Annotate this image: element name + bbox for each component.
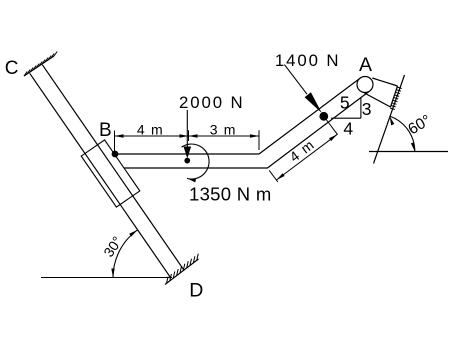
svg-text:1350 N m: 1350 N m [189, 184, 272, 205]
svg-text:4: 4 [343, 119, 353, 139]
svg-text:A: A [359, 54, 372, 76]
svg-text:B: B [99, 120, 112, 141]
svg-text:4 m: 4 m [137, 122, 164, 138]
svg-text:D: D [189, 280, 203, 302]
svg-text:5: 5 [340, 93, 350, 113]
svg-text:1400 N: 1400 N [275, 51, 341, 70]
svg-text:3 m: 3 m [210, 122, 237, 138]
svg-text:2000 N: 2000 N [179, 93, 245, 112]
svg-text:C: C [5, 58, 19, 79]
svg-text:3: 3 [362, 99, 372, 119]
